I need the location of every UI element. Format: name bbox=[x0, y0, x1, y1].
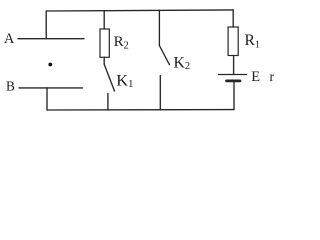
wire left vertical lower (terminal B lead to bottom wire) bbox=[46, 88, 48, 110]
svg-text:r: r bbox=[270, 69, 275, 84]
switch K2 blade bbox=[159, 46, 169, 65]
switch K1 blade bbox=[104, 64, 114, 91]
switch K1 fixed contact bbox=[107, 94, 109, 111]
switch K2 fixed contact bbox=[159, 76, 161, 110]
wire R2 top lead bbox=[103, 11, 105, 29]
battery short plate (negative) bbox=[227, 80, 241, 83]
wire R1 top lead bbox=[232, 10, 234, 27]
svg-text:E: E bbox=[251, 69, 260, 85]
wire battery top lead bbox=[233, 56, 235, 75]
battery long plate (positive) bbox=[219, 74, 247, 76]
wire terminal A lead bbox=[18, 38, 84, 40]
resistor R1 bbox=[228, 27, 238, 56]
wire R2 bottom lead bbox=[103, 57, 105, 64]
svg-text:A: A bbox=[4, 31, 15, 47]
wire K2 top lead bbox=[158, 10, 160, 45]
node dot between terminals A and B bbox=[48, 63, 52, 67]
resistor R2 bbox=[100, 29, 109, 57]
wire terminal B lead bbox=[19, 87, 83, 89]
wire bottom bbox=[47, 109, 234, 111]
wire battery bottom lead bbox=[233, 81, 235, 110]
wire left vertical upper (top wire to terminal A lead) bbox=[45, 11, 47, 39]
svg-text:B: B bbox=[6, 78, 15, 93]
wire top bbox=[46, 10, 233, 11]
